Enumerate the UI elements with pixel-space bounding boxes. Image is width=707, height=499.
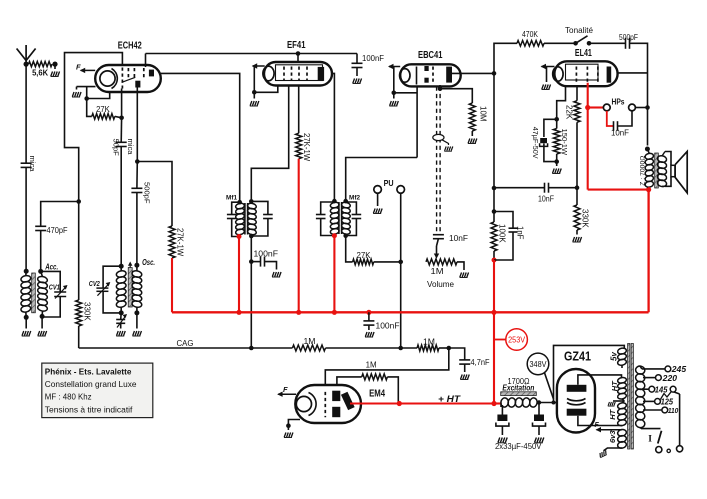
svg-text:47µF-50V: 47µF-50V [531, 127, 540, 159]
svg-text:Mf2: Mf2 [349, 195, 360, 202]
svg-text:PU: PU [384, 178, 394, 188]
svg-text:CV2: CV2 [89, 279, 100, 288]
svg-text:27K: 27K [96, 104, 110, 114]
svg-text:220: 220 [662, 374, 678, 383]
svg-text:5v: 5v [610, 352, 619, 361]
svg-text:100K: 100K [498, 224, 507, 243]
svg-text:EL41: EL41 [575, 48, 592, 59]
svg-text:150-1W: 150-1W [560, 129, 569, 156]
svg-text:EF41: EF41 [287, 40, 306, 51]
svg-text:1M: 1M [304, 337, 316, 346]
svg-text:HT: HT [610, 380, 619, 391]
svg-text:Osc.: Osc. [142, 258, 155, 267]
svg-text:Constellation grand Luxe: Constellation grand Luxe [45, 379, 137, 389]
svg-text:Tonalité: Tonalité [565, 25, 593, 35]
svg-text:470pF: 470pF [47, 226, 68, 235]
svg-text:1M: 1M [431, 267, 444, 276]
svg-text:10nF: 10nF [611, 129, 629, 138]
svg-text:mica: mica [126, 139, 135, 156]
svg-text:10nF: 10nF [449, 234, 468, 243]
svg-text:1M: 1M [366, 361, 377, 370]
svg-text:Excitation: Excitation [502, 384, 534, 393]
svg-text:MF : 480 Khz: MF : 480 Khz [45, 392, 92, 402]
svg-text:10M: 10M [479, 106, 488, 122]
svg-text:5,6K: 5,6K [32, 68, 49, 78]
svg-text:10nF: 10nF [538, 195, 554, 204]
svg-text:145: 145 [655, 386, 668, 395]
svg-text:EM4: EM4 [369, 389, 385, 400]
svg-text:Acc.: Acc. [44, 263, 58, 272]
svg-text:F: F [595, 422, 600, 429]
svg-text:330K: 330K [581, 209, 590, 228]
svg-text:6v3: 6v3 [608, 430, 617, 443]
svg-text:Z : 7000Ω: Z : 7000Ω [639, 156, 646, 186]
svg-text:F: F [283, 385, 288, 394]
svg-text:Volume: Volume [427, 280, 454, 289]
svg-text:mica: mica [28, 156, 37, 173]
svg-text:22K: 22K [564, 105, 573, 120]
svg-text:Phénix - Ets. Lavalette: Phénix - Ets. Lavalette [45, 367, 132, 377]
svg-text:27K-1W: 27K-1W [176, 228, 185, 257]
svg-text:1nF: 1nF [516, 226, 525, 240]
svg-text:Mf1: Mf1 [226, 195, 237, 202]
svg-text:27K-1W: 27K-1W [302, 133, 311, 162]
svg-text:253V: 253V [508, 336, 526, 345]
svg-text:100nF: 100nF [376, 322, 400, 331]
svg-text:100nF: 100nF [254, 250, 279, 259]
svg-text:110: 110 [668, 406, 679, 415]
svg-text:I: I [648, 435, 652, 445]
svg-text:1M: 1M [423, 338, 435, 347]
svg-text:470K: 470K [522, 29, 538, 39]
svg-text:HPs: HPs [612, 98, 625, 107]
svg-text:27K: 27K [357, 251, 372, 260]
svg-text:330K: 330K [83, 302, 92, 321]
svg-text:348V: 348V [530, 360, 548, 369]
svg-text:4,7nF: 4,7nF [471, 358, 490, 367]
svg-text:HT: HT [608, 408, 617, 419]
svg-text:ECH42: ECH42 [118, 41, 142, 52]
svg-text:245: 245 [671, 365, 687, 374]
svg-text:CAG: CAG [177, 338, 194, 348]
svg-text:GZ41: GZ41 [564, 349, 591, 364]
svg-text:F: F [76, 62, 81, 71]
svg-text:EBC41: EBC41 [418, 50, 443, 61]
svg-text:2x33µF-450V: 2x33µF-450V [495, 441, 542, 451]
svg-text:500pF: 500pF [619, 32, 638, 42]
svg-text:50pF: 50pF [112, 139, 121, 157]
svg-text:+ HT: + HT [438, 394, 461, 405]
svg-text:Tensions à titre indicatif: Tensions à titre indicatif [45, 404, 133, 414]
svg-text:CV1: CV1 [49, 283, 60, 292]
svg-text:100nF: 100nF [362, 54, 384, 63]
svg-text:500pF: 500pF [142, 182, 151, 204]
